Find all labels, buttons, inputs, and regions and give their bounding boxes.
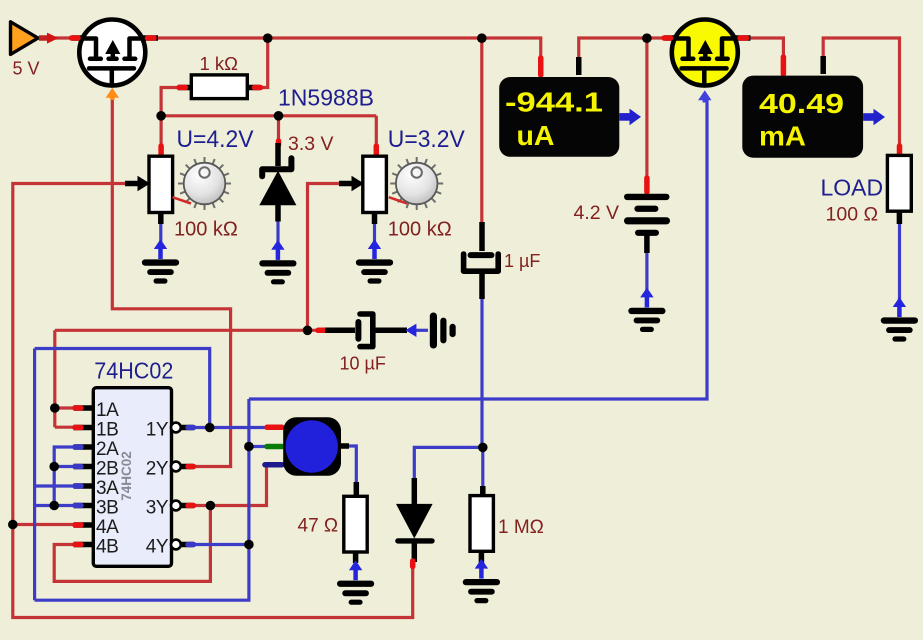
- wire: top rail down to 1uF capacitor: [480, 38, 483, 224]
- svg-text:74HC02: 74HC02: [94, 357, 173, 383]
- svg-text:-944.1: -944.1: [505, 87, 603, 118]
- IC U1 pin labels left: [96, 400, 119, 558]
- wire: stub to LED green pin: [249, 445, 267, 448]
- wire: node rail down to R1 right terminal: [258, 38, 268, 88]
- wire: blue left long vertical: [33, 349, 36, 601]
- IC U1 74HC02 body: [93, 388, 171, 567]
- resistor R1 1k body: [178, 85, 193, 91]
- ground battery: [628, 288, 665, 333]
- wire: 3Y output line to LED blue pin riser: [192, 465, 267, 506]
- svg-text:3B: 3B: [96, 497, 118, 518]
- ground sideways (10uF return): [430, 313, 456, 349]
- wire: 3A stub to left vertical: [35, 484, 76, 487]
- junction dot 4Y: [244, 540, 254, 550]
- junction dot 10uF node: [303, 326, 313, 336]
- wire: row2 rail (zener rail): [161, 114, 376, 117]
- svg-text:uA: uA: [517, 120, 555, 151]
- wire: 10uF right to side ground: [413, 329, 428, 332]
- capacitor C1 1uF electrolytic: [464, 222, 499, 299]
- svg-text:100 kΩ: 100 kΩ: [388, 219, 452, 241]
- node junction dots row2: [156, 111, 166, 121]
- transistor Q1 inner symbol: [81, 39, 144, 86]
- wire: 4B input loop under chip up to 3Y line: [54, 506, 210, 582]
- ground LOAD: [881, 297, 918, 342]
- wire: 10uF node line to chip 1A/1B column: [55, 329, 318, 332]
- transistor Q2 stubs: [665, 35, 677, 41]
- wire: row2 to potentiometer P1 top: [160, 116, 163, 146]
- junction dot 1A: [50, 403, 60, 413]
- wire: left vertical to 4A pin: [13, 523, 76, 526]
- potentiometer P2: [339, 146, 443, 224]
- svg-text:4.2 V: 4.2 V: [574, 202, 620, 224]
- LED right pin stub: [341, 443, 349, 449]
- junction dot 4A: [8, 520, 18, 530]
- svg-text:3A: 3A: [96, 478, 119, 499]
- diode D2: [412, 478, 418, 505]
- ground pot P1: [142, 239, 179, 284]
- junction dot 3Y: [206, 501, 216, 511]
- wire: stub to 2B pin: [54, 465, 76, 468]
- wire: 1A/1B input column: [53, 330, 56, 427]
- svg-text:mA: mA: [759, 121, 806, 152]
- wire: node down to 1Mohm resistor: [481, 447, 484, 488]
- transistor Q1 MOSFET circle: [79, 20, 145, 86]
- svg-text:4B: 4B: [96, 536, 118, 557]
- IC U1 right pin stubs and bubbles: [181, 428, 194, 545]
- junction dot 2B: [49, 462, 59, 472]
- wire: LOAD bottom to ground: [898, 223, 901, 317]
- wire: 4Y output line: [192, 543, 249, 546]
- wire: R1 left terminal down to node row2: [161, 88, 180, 116]
- svg-text:47 Ω: 47 Ω: [298, 516, 339, 537]
- wire: stub to 1A pin: [55, 406, 76, 409]
- wire: 1uF bottom down to node, left to diode anode: [414, 298, 482, 479]
- IC U1 left pin stubs: [74, 408, 94, 545]
- svg-text:2B: 2B: [96, 458, 118, 479]
- IC U1 left pin nubs: [75, 405, 81, 411]
- resistor R3 1M ohm: [480, 486, 486, 497]
- svg-text:10 µF: 10 µF: [340, 354, 386, 374]
- arrow into side ground: [405, 324, 416, 337]
- transistor Q1 source/drain stubs: [72, 35, 84, 41]
- wire: top rail M2 right to ammeter2 + lead: [744, 38, 783, 58]
- svg-text:4A: 4A: [96, 517, 119, 538]
- battery 4.2V: [624, 178, 670, 253]
- junction dot diode/1M node: [478, 443, 488, 453]
- resistor R4 LOAD 100 ohm: [897, 146, 903, 155]
- wire: top rail ammeter2 - lead to LOAD resistor top: [823, 38, 899, 147]
- LED RGB body: [283, 417, 341, 475]
- wire: P1 wiper line, left vertical, bottom rail to diode cathode: [13, 184, 413, 618]
- svg-text:1Y: 1Y: [146, 419, 169, 440]
- svg-text:1 µF: 1 µF: [504, 251, 540, 271]
- wire: M2 gate line: [249, 99, 707, 399]
- junction dot 1Y: [205, 423, 215, 433]
- svg-text:3Y: 3Y: [146, 497, 169, 518]
- voltage source 5V triangle: [11, 22, 39, 55]
- zener diode D1 1N5988B: [259, 141, 296, 222]
- ammeter display 1: [538, 58, 544, 75]
- wire: zener bottom to ground: [276, 220, 279, 260]
- svg-text:100 Ω: 100 Ω: [826, 204, 879, 226]
- svg-text:2A: 2A: [96, 439, 119, 460]
- svg-text:2Y: 2Y: [146, 458, 169, 479]
- ground 47 ohm: [337, 560, 374, 605]
- resistor R2 47 ohm: [354, 482, 360, 497]
- transistor Q2 MOSFET circle (selected yellow): [672, 20, 738, 86]
- wire: blue rail 1Y loop top: [35, 349, 210, 428]
- wire: stub to 3B pin: [54, 504, 76, 507]
- IC U1 pin labels right: [146, 419, 169, 557]
- junction dot LED green column: [244, 442, 254, 452]
- svg-text:3.3 V: 3.3 V: [288, 133, 334, 155]
- svg-text:40.49: 40.49: [759, 88, 844, 119]
- wire: M1 gate down, across, to 2Y output: [112, 97, 230, 467]
- svg-text:100 kΩ: 100 kΩ: [174, 219, 238, 241]
- ground pot P2: [356, 239, 393, 284]
- node junction dots top rail: [263, 33, 273, 43]
- wire: top rail M1 right to ammeter1 + lead: [158, 38, 541, 60]
- svg-text:74HC02: 74HC02: [119, 451, 134, 501]
- svg-text:1 MΩ: 1 MΩ: [498, 517, 544, 538]
- wire: top rail ammeter1 - lead to M2 left: [579, 38, 666, 60]
- wire: P1 bottom to ground: [159, 222, 162, 259]
- capacitor C2 10uF electrolytic: [318, 314, 407, 347]
- svg-text:U=4.2V: U=4.2V: [177, 126, 254, 153]
- wire: stub to 1B pin: [55, 426, 76, 429]
- wire: LED column vertical with bottom rail: [35, 399, 249, 600]
- svg-text:4Y: 4Y: [146, 536, 169, 557]
- wire: LED anode to 47ohm resistor: [345, 446, 356, 484]
- transistor Q1 gate arrow orange: [106, 88, 119, 98]
- svg-text:LOAD: LOAD: [821, 174, 884, 200]
- wire: 5V source output to M1 drain: [38, 36, 74, 39]
- ammeter display 2: [781, 57, 787, 74]
- LED RGB pins nubs: [267, 425, 282, 431]
- IC U1 output bubbles: [171, 423, 181, 550]
- svg-text:1N5988B: 1N5988B: [278, 85, 374, 111]
- ground 1M ohm: [463, 559, 500, 604]
- ground zener: [259, 240, 296, 285]
- potentiometer P1: [125, 146, 231, 224]
- wire: 1Y output line to LED red pin: [192, 426, 267, 429]
- wire: P2 bottom to ground: [373, 222, 376, 259]
- wire: battery - to ground: [645, 252, 648, 307]
- svg-text:1 kΩ: 1 kΩ: [200, 53, 239, 74]
- svg-text:1B: 1B: [96, 419, 118, 440]
- svg-text:5 V: 5 V: [13, 59, 40, 79]
- wire: 2A 2B 3B input column: [35, 447, 76, 506]
- wire: P2 wiper line down to 10uF node: [308, 184, 344, 331]
- wire: row2 to potentiometer P2 top: [375, 116, 378, 146]
- transistor Q2 gate arrow blue: [698, 90, 711, 100]
- voltage source output bright segment with arrow: [39, 35, 48, 41]
- svg-text:U=3.2V: U=3.2V: [388, 126, 465, 153]
- svg-text:1A: 1A: [96, 400, 119, 421]
- junction dot 3B: [49, 501, 59, 511]
- transistor Q2 inner symbol: [674, 39, 737, 86]
- wire: top rail down to battery +: [645, 38, 648, 178]
- wire: row2 to zener top: [277, 116, 280, 141]
